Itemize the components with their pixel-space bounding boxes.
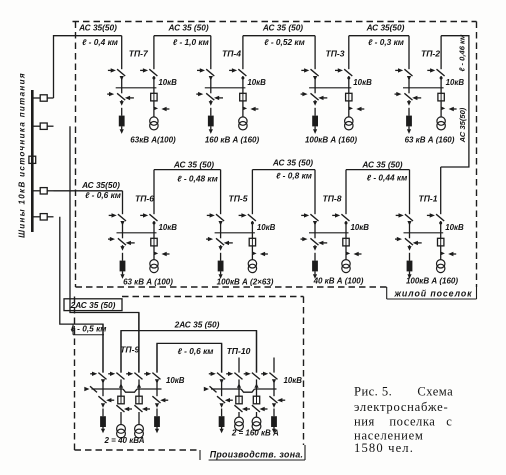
substation ТП-4 label: [222, 49, 241, 59]
substation ТП-4: incoming disconnector (left leg): [197, 68, 214, 88]
substation ТП-8: surge arrester on outgoing feeder: [312, 253, 318, 279]
substation ТП-2: transformer T: [437, 108, 445, 129]
substation ТП-10 label: [227, 346, 251, 356]
svg-text:2АС 35 (50): 2АС 35 (50): [174, 319, 220, 329]
substation ТП-10: riser wire at x=239.0: [238, 358, 240, 373]
svg-text:АС 35 (50): АС 35 (50): [173, 159, 214, 169]
substation ТП-4: feeder disconnector below bus (left leg): [196, 88, 223, 106]
svg-text:ℓ - 0,8 км: ℓ - 0,8 км: [276, 170, 312, 180]
substation ТП-8: fuse (right leg): [343, 233, 349, 246]
substation ТП-7 label: [129, 49, 149, 59]
feeder wire: bus tap 1 up to upper ring line: [54, 36, 122, 98]
substation ТП-7: 10kV busbar: [116, 87, 157, 89]
substation ТП-10: 10kV busbar with section jumper: [211, 389, 277, 392]
substation ТП-8 label: [322, 194, 341, 204]
substation ТП-7: feeder disconnector below bus (left leg): [107, 88, 134, 106]
line length label 1.0 km segment 2: [173, 37, 209, 47]
substation ТП-7: transformer link point: [154, 101, 170, 111]
svg-text:ℓ - 0,5 км: ℓ - 0,5 км: [71, 324, 107, 334]
svg-text:АС 35 (50): АС 35 (50): [262, 23, 303, 33]
svg-text:АС 35(50): АС 35(50): [78, 23, 117, 33]
svg-text:АС 35(50): АС 35(50): [458, 107, 467, 143]
substation ТП-5: incoming disconnector (left leg): [207, 213, 224, 233]
substation ТП-10: outgoing disconnector + surge arrester leg x=221.6: [217, 389, 233, 433]
substation ТП-10: riser wire at x=256.5: [256, 331, 258, 373]
substation ТП-4: 10kV label: [247, 78, 266, 87]
substation ТП-7: 10kV label: [158, 78, 177, 87]
substation ТП-8: transformer rating: [313, 277, 364, 286]
substation ТП-10: line disconnector leg 4: [261, 372, 277, 389]
wire: TP-4 to TP-3 line: [243, 35, 315, 37]
substation ТП-5: right riser wire: [251, 170, 253, 215]
svg-text:жилой поселок: жилой поселок: [394, 289, 473, 299]
line length label 0.6 km production: [178, 346, 214, 356]
substation ТП-7: left riser wire: [121, 36, 123, 69]
substation ТП-10: line disconnector leg 1: [209, 372, 225, 389]
substation ТП-2: 10kV busbar: [403, 87, 444, 89]
svg-text:10кВ: 10кВ: [257, 223, 276, 232]
substation ТП-9: fuse + transformer leg x=121.0: [116, 389, 132, 438]
substation ТП-2 label: [421, 49, 440, 59]
substation ТП-6: transformer T: [150, 253, 158, 272]
substation ТП-4: right riser wire: [242, 36, 244, 69]
svg-text:ТП-10: ТП-10: [227, 346, 251, 356]
svg-text:ℓ - 0,52 км: ℓ - 0,52 км: [264, 37, 304, 47]
substation ТП-4: transformer T: [239, 108, 247, 129]
feeder wire: bus tap 4 down to TP-9 (l=0.5 km): [60, 217, 103, 373]
substation ТП-1 label: [418, 194, 437, 204]
svg-text:ТП-3: ТП-3: [325, 49, 344, 59]
substation ТП-10: line disconnector leg 2: [226, 372, 242, 389]
substation ТП-7: transformer T: [150, 108, 158, 129]
bus tap switch to feeder 4 (production line 2): [34, 214, 54, 220]
substation ТП-5 label: [228, 194, 247, 204]
substation ТП-6: transformer rating: [123, 278, 173, 287]
substation ТП-6: left riser wire: [122, 191, 124, 214]
svg-text:ТП-8: ТП-8: [322, 194, 341, 204]
boxed line length label 0.5 km: [71, 324, 107, 335]
zone label: производств. зона: [200, 445, 305, 460]
line label AC 35(50) lower feeder: [81, 180, 120, 190]
svg-text:ТП-4: ТП-4: [222, 49, 241, 59]
substation ТП-5: transformer T: [248, 253, 256, 272]
boxed line label 2AC 35(50): [64, 299, 122, 311]
svg-text:100кВ А (160): 100кВ А (160): [305, 135, 357, 144]
svg-text:10кВ: 10кВ: [284, 376, 303, 385]
line length label 0.8 km: [276, 170, 312, 180]
substation ТП-1: transformer rating: [406, 277, 458, 286]
line label AC 35(50) TP5-TP8: [272, 157, 313, 167]
substation ТП-2: incoming disconnector (left leg): [395, 68, 412, 88]
svg-text:ТП-1: ТП-1: [418, 194, 437, 204]
substation ТП-7: right riser wire: [153, 36, 155, 69]
substation ТП-8: incoming disconnector (left leg): [301, 213, 318, 233]
svg-text:Рис. 5. Схема: Рис. 5. Схема: [354, 385, 453, 399]
feeder wire: bus tap to TP-6: [54, 190, 123, 192]
substation ТП-4: fuse (right leg): [240, 88, 246, 101]
substation ТП-1: left riser wire: [409, 170, 411, 215]
svg-text:2АС 35 (50): 2АС 35 (50): [70, 300, 116, 310]
rotated line label AC 35(50) right side: [458, 107, 467, 143]
svg-text:10кВ: 10кВ: [446, 78, 465, 87]
substation ТП-9: outgoing disconnector + surge arrester leg x=157.0: [152, 389, 168, 433]
substation ТП-3: transformer T: [345, 108, 353, 129]
substation ТП-4: transformer link point: [243, 101, 259, 111]
svg-text:10кВ: 10кВ: [351, 223, 370, 232]
substation ТП-3: fuse (right leg): [346, 88, 352, 101]
substation ТП-6: right riser wire: [153, 170, 155, 215]
substation ТП-6: surge arrester on outgoing feeder: [120, 253, 126, 279]
substation ТП-9: outgoing disconnector + surge arrester leg x=103.0: [98, 389, 114, 433]
substation ТП-10: outgoing disconnector + surge arrester leg x=274.0: [269, 389, 285, 433]
svg-text:63кВ А(100): 63кВ А(100): [130, 135, 176, 144]
svg-text:Производств. зона.: Производств. зона.: [210, 449, 304, 459]
svg-text:40 кВ А (100): 40 кВ А (100): [313, 277, 364, 286]
substation ТП-4: 10kV busbar: [205, 87, 246, 89]
line label AC 35(50) segment 4: [366, 23, 405, 33]
substation ТП-9: riser wire at x=121.0: [120, 331, 122, 373]
substation ТП-9: bus sectionalizing disconnector: [84, 386, 97, 392]
substation ТП-3: feeder disconnector below bus (left leg): [301, 88, 328, 106]
svg-text:10кВ: 10кВ: [158, 78, 177, 87]
wire: TP-6 to TP-5 line: [154, 169, 221, 171]
wire: TP-9 to TP-10 reserve line l=0.6 km: [157, 343, 222, 372]
svg-text:1580 чел.: 1580 чел.: [354, 441, 414, 455]
substation ТП-5: surge arrester on outgoing feeder: [218, 253, 224, 279]
substation ТП-5: 10kV busbar: [215, 232, 255, 234]
line length label 0.44 km: [367, 172, 407, 182]
svg-text:2 = 40 кВА: 2 = 40 кВА: [104, 436, 145, 445]
substation ТП-8: left riser wire: [314, 170, 316, 215]
substation ТП-1: feeder disconnector below bus (left leg): [395, 233, 422, 251]
substation ТП-10: line disconnector leg 3: [244, 372, 260, 389]
substation ТП-6: feeder disconnector below bus (left leg): [108, 233, 135, 251]
substation ТП-9: 10kV label: [166, 376, 185, 385]
line length label 0.3 km segment 4: [368, 37, 404, 47]
svg-text:АС 35 (50): АС 35 (50): [272, 157, 313, 167]
substation ТП-9: transformers rating: [104, 436, 145, 445]
substation ТП-7: incoming disconnector (left leg): [108, 68, 125, 88]
substation ТП-1: 10kV busbar: [404, 232, 444, 234]
substation ТП-5: 10kV label: [257, 223, 276, 232]
substation ТП-4: transformer rating: [205, 135, 260, 144]
substation ТП-1: incoming disconnector (left leg): [396, 213, 413, 233]
svg-text:электроснабже-: электроснабже-: [354, 400, 448, 414]
substation ТП-2: fuse (right leg): [438, 88, 444, 101]
substation ТП-4: left riser wire: [210, 36, 212, 69]
svg-text:ℓ - 0,6 км: ℓ - 0,6 км: [85, 190, 121, 200]
svg-text:ТП-5: ТП-5: [228, 194, 247, 204]
substation ТП-5: transformer link point: [252, 246, 268, 256]
substation ТП-6: fuse (right leg): [151, 233, 157, 246]
line length label 0.6 km lower feeder: [85, 190, 121, 200]
line label AC35 (50) TP6-TP5: [173, 159, 214, 169]
svg-text:10кВ: 10кВ: [166, 376, 185, 385]
svg-text:ℓ - 0,44 км: ℓ - 0,44 км: [367, 172, 407, 182]
substation ТП-9: riser wire at x=103.0: [102, 324, 104, 373]
substation ТП-8: feeder disconnector below bus (left leg): [301, 233, 328, 251]
feeder wire: bus tap 2 down to production zone (2AC 35(50)): [70, 126, 139, 372]
rotated line length label 0.46 km: [457, 34, 466, 71]
substation ТП-7: fuse (right leg): [151, 88, 157, 101]
substation ТП-9: 10kV busbar with section jumper: [92, 389, 162, 392]
substation ТП-1: surge arrester on outgoing feeder: [407, 253, 413, 279]
substation ТП-1: right riser wire: [440, 167, 442, 214]
substation ТП-8: transformer T: [342, 253, 350, 272]
substation ТП-3: surge arrester on outgoing feeder: [312, 108, 318, 134]
bus tap switch to feeder 3 (production line 1): [34, 123, 54, 129]
substation ТП-3: 10kV label: [353, 78, 372, 87]
bus tap switch to feeder 1 (upper ring): [34, 95, 54, 101]
substation ТП-10: fuse + transformer leg x=256.5: [252, 389, 268, 431]
line label 2AC 35 (50) production link: [174, 319, 220, 329]
zone border: производственная зона (dashed box): [75, 297, 304, 451]
line length label 0.52 km segment 3: [264, 37, 304, 47]
svg-text:ния поселка с: ния поселка с: [354, 415, 452, 429]
substation ТП-10: transformers rating: [231, 429, 279, 438]
substation ТП-10: riser wire at x=221.6: [221, 343, 223, 372]
substation ТП-2: transformer rating: [405, 135, 455, 144]
svg-text:ℓ - 0,3 км: ℓ - 0,3 км: [368, 37, 404, 47]
substation ТП-3 label: [325, 49, 344, 59]
svg-text:ТП-9: ТП-9: [120, 345, 139, 355]
substation ТП-5: feeder disconnector below bus (left leg): [206, 233, 233, 251]
svg-text:АС 35(50): АС 35(50): [366, 23, 405, 33]
substation ТП-10: bus sectionalizing disconnector: [204, 386, 217, 392]
line length label 0.4 km segment 1: [82, 37, 118, 47]
wire: TP-5 to TP-8 line: [252, 169, 315, 171]
substation ТП-10: riser wire at x=274.0: [273, 358, 275, 373]
svg-text:ТП-2: ТП-2: [421, 49, 440, 59]
substation ТП-3: 10kV busbar: [309, 87, 351, 89]
wire: TP-9 to TP-10 line 2AC 35(50): [121, 331, 257, 373]
substation ТП-7: outgoing disconnector (right leg): [140, 68, 157, 88]
substation ТП-9: line disconnector leg 2: [108, 372, 124, 389]
substation ТП-8: 10kV busbar: [309, 232, 349, 234]
svg-text:АС 35(50): АС 35(50): [81, 180, 120, 190]
substation ТП-6: transformer link point: [154, 246, 170, 256]
substation ТП-1: transformer link point: [441, 246, 457, 256]
substation ТП-1: 10kV label: [445, 223, 464, 232]
substation ТП-8: right riser wire: [345, 170, 347, 215]
substation ТП-2: right riser wire: [440, 36, 442, 69]
substation ТП-1: transformer T: [437, 253, 445, 272]
substation ТП-9: line disconnector leg 3: [126, 372, 142, 389]
substation ТП-3: outgoing disconnector (right leg): [335, 68, 352, 88]
svg-text:ℓ - 0,46 км: ℓ - 0,46 км: [457, 34, 466, 71]
svg-text:ℓ - 0,4 км: ℓ - 0,4 км: [82, 37, 118, 47]
substation ТП-2: outgoing disconnector (right leg): [427, 68, 444, 88]
svg-text:Шины 10кВ источника питания: Шины 10кВ источника питания: [18, 72, 27, 238]
bus sectionalizing switch: [29, 156, 36, 163]
bus tap switch to feeder 2 (lower ring): [34, 188, 54, 194]
svg-text:10кВ: 10кВ: [247, 78, 266, 87]
svg-text:ТП-6: ТП-6: [135, 194, 154, 204]
substation ТП-1: outgoing disconnector (right leg): [427, 213, 444, 233]
substation ТП-9 label: [120, 345, 139, 355]
substation ТП-9: riser wire at x=157.0: [156, 343, 158, 372]
substation ТП-7: surge arrester on outgoing feeder: [119, 108, 125, 134]
svg-text:10кВ: 10кВ: [353, 78, 372, 87]
substation ТП-5: transformer rating: [217, 278, 274, 287]
svg-text:АС 35 (50): АС 35 (50): [361, 159, 402, 169]
wire: TP-8 to TP-1 line: [346, 169, 410, 171]
substation ТП-2: transformer link point: [441, 101, 457, 111]
substation ТП-2: feeder disconnector below bus (left leg): [395, 88, 422, 106]
substation ТП-5: left riser wire: [220, 170, 222, 215]
substation ТП-10: fuse + transformer leg x=239.0: [234, 389, 250, 431]
substation ТП-8: transformer link point: [346, 246, 362, 256]
line label AC 35(50) segment 2: [168, 23, 209, 33]
substation ТП-6: incoming disconnector (left leg): [109, 213, 126, 233]
substation ТП-3: incoming disconnector (left leg): [301, 68, 318, 88]
substation ТП-1: fuse (right leg): [438, 233, 444, 246]
svg-text:ТП-7: ТП-7: [129, 49, 149, 59]
substation ТП-6: 10kV busbar: [117, 232, 157, 234]
substation ТП-2: surge arrester on outgoing feeder: [406, 108, 412, 134]
substation ТП-3: transformer link point: [349, 101, 365, 111]
svg-text:10кВ: 10кВ: [445, 223, 464, 232]
wire: TP-3 to TP-2 line: [349, 35, 409, 37]
substation ТП-2: left riser wire: [408, 36, 410, 69]
main 10kV source busbar: [31, 90, 34, 232]
substation ТП-10: 10kV label: [284, 376, 303, 385]
figure caption: [354, 385, 453, 456]
substation ТП-9: line disconnector leg 1: [90, 372, 106, 389]
substation ТП-4: surge arrester on outgoing feeder: [208, 108, 214, 134]
substation ТП-4: outgoing disconnector (right leg): [229, 68, 246, 88]
substation ТП-2: 10kV label: [446, 78, 465, 87]
substation ТП-9: line disconnector leg 4: [144, 372, 160, 389]
substation ТП-9: riser wire at x=139.0: [138, 313, 140, 373]
substation ТП-3: left riser wire: [314, 36, 316, 69]
wire: TP-7 to TP-4 line: [154, 35, 211, 37]
substation ТП-3: right riser wire: [348, 36, 350, 69]
substation ТП-7: transformer rating: [130, 135, 176, 144]
svg-text:ℓ - 0,48 км: ℓ - 0,48 км: [177, 173, 217, 183]
svg-text:10кВ: 10кВ: [159, 223, 178, 232]
line label AC 35(50) segment 1: [78, 23, 117, 33]
substation ТП-8: 10kV label: [351, 223, 370, 232]
svg-text:2 = 160 кВ А: 2 = 160 кВ А: [231, 429, 279, 438]
wire: TP-2 down the right side to TP-1 (ring closing link): [441, 36, 469, 167]
svg-text:100кВ А (160): 100кВ А (160): [406, 277, 458, 286]
zone label: жилой поселок: [387, 287, 477, 299]
svg-text:63 кВ А (160): 63 кВ А (160): [405, 135, 455, 144]
svg-text:160 кВ А (160): 160 кВ А (160): [205, 135, 260, 144]
busbar caption (rotated): [18, 72, 27, 238]
substation ТП-3: transformer rating: [305, 135, 357, 144]
substation ТП-8: outgoing disconnector (right leg): [332, 213, 349, 233]
svg-text:100кВ А (2×63): 100кВ А (2×63): [217, 278, 274, 287]
substation ТП-5: fuse (right leg): [249, 233, 255, 246]
svg-text:ℓ - 0,6 км: ℓ - 0,6 км: [178, 346, 214, 356]
svg-text:АС 35 (50): АС 35 (50): [168, 23, 209, 33]
line length label 0.48 km: [177, 173, 217, 183]
substation ТП-6: 10kV label: [159, 223, 178, 232]
substation ТП-9: fuse + transformer leg x=139.0: [134, 389, 150, 438]
substation ТП-6: outgoing disconnector (right leg): [140, 213, 157, 233]
substation ТП-5: outgoing disconnector (right leg): [239, 213, 256, 233]
svg-text:ℓ - 1,0 км: ℓ - 1,0 км: [173, 37, 209, 47]
substation ТП-6 label: [135, 194, 154, 204]
svg-text:63 кВ А (100): 63 кВ А (100): [123, 278, 173, 287]
zone border: жилой поселок (dashed box): [73, 22, 477, 288]
line label AC 35(50) segment 3: [262, 23, 303, 33]
line label AC 35 (50) TP8-TP1: [361, 159, 402, 169]
